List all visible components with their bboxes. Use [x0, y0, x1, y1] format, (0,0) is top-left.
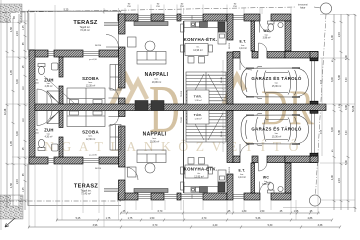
wall: nappali west wall (unit B) — [119, 111, 126, 117]
svg-text:2,15: 2,15 — [338, 32, 341, 37]
reference circle top right — [320, 3, 331, 14]
svg-text:kar.: kar. — [265, 33, 269, 36]
fridge tall unit (unit B) — [218, 170, 226, 192]
sofa (unit B nappali) — [137, 150, 166, 163]
entrance door arc to terrace (unit A) — [106, 35, 119, 48]
svg-text:75/210: 75/210 — [181, 91, 183, 97]
top window dim marks — [64, 4, 238, 12]
szoba door arc (unit B) — [109, 117, 119, 127]
svg-text:19,06 m²: 19,06 m² — [152, 81, 162, 84]
media blocks at party wall (unit A/B) — [135, 101, 164, 111]
svg-text:4,30 m²: 4,30 m² — [45, 85, 53, 88]
svg-text:5,36: 5,36 — [256, 217, 261, 220]
wall: bottom exterior (unit B) hatched segments — [118, 193, 138, 200]
wall: zuh/szoba divider (unit B) — [59, 111, 63, 128]
svg-text:3,00: 3,00 — [331, 127, 334, 132]
wall: garage south wall (unit B) — [233, 156, 240, 163]
svg-text:1,05: 1,05 — [23, 187, 25, 192]
toilet (unit B wc) — [268, 183, 275, 193]
wardrobe (unit A szoba) — [110, 65, 121, 91]
wall: west wing north wall (unit A) — [29, 50, 48, 57]
wall: west exterior wall — [29, 50, 35, 164]
svg-text:hatar: hatar — [300, 7, 306, 10]
window symbols in top wall (unit A) — [104, 16, 244, 26]
kitchen counter (unit B) — [181, 182, 219, 193]
svg-text:72,43 m²: 72,43 m² — [80, 29, 90, 32]
svg-text:kar.: kar. — [241, 44, 245, 47]
svg-text:5,25: 5,25 — [76, 217, 81, 220]
svg-text:1,50: 1,50 — [260, 210, 265, 213]
arrow bottom-left — [5, 218, 15, 227]
wall: garage north wall (unit A) — [233, 52, 240, 59]
wall: garage west wall (unit A) — [227, 14, 233, 40]
shower tray (unit A zuh) — [47, 91, 60, 104]
svg-text:1,56: 1,56 — [10, 183, 13, 188]
dining table with chairs (unit A) — [181, 44, 213, 64]
washbasin (unit B zuh) — [52, 144, 59, 151]
coffee table round (unit B nappali) — [145, 163, 155, 173]
reference circle bottom right — [309, 195, 320, 206]
storage TAR closet (unit B) — [187, 111, 209, 125]
tv sill bar (unit B nappali) — [134, 189, 168, 193]
svg-text:kar.: kar. — [47, 82, 51, 85]
svg-text:3,98 m²: 3,98 m² — [262, 183, 270, 186]
kitchen counter (unit A) — [181, 21, 219, 32]
wall: WC east wall / NE corner (unit A) — [285, 21, 291, 51]
door arc zuh (unit A) — [37, 89, 52, 104]
svg-text:17x18: 17x18 — [221, 76, 223, 83]
wall: kitchen partition line (unit A) — [183, 21, 185, 104]
svg-text:kar.: kar. — [47, 133, 51, 136]
svg-text:1,30: 1,30 — [331, 175, 334, 180]
property dash-dot line top — [2, 7, 296, 12]
svg-text:E.T.: E.T. — [238, 169, 245, 173]
toilet (unit A zuh) — [38, 64, 45, 75]
stair interior dim line (unit A) — [222, 58, 323, 156]
svg-text:75/110: 75/110 — [181, 117, 183, 123]
svg-text:1,55: 1,55 — [294, 210, 299, 213]
armchair (unit A nappali) — [128, 37, 137, 47]
svg-text:6,70: 6,70 — [153, 224, 158, 227]
svg-text:kar.: kar. — [240, 173, 244, 176]
svg-text:4,14 m²: 4,14 m² — [238, 176, 246, 179]
stairs (unit B) — [186, 111, 226, 143]
svg-text:5,36: 5,36 — [338, 130, 341, 135]
terrace bottom edge line — [28, 164, 121, 206]
watermark logo and lettering — [32, 72, 315, 154]
svg-text:NAPPALI: NAPPALI — [145, 72, 169, 78]
svg-text:19,06 m²: 19,06 m² — [150, 140, 160, 143]
interior door dim marks — [95, 43, 231, 173]
svg-text:90/210: 90/210 — [229, 43, 231, 49]
svg-text:15,36 m²: 15,36 m² — [272, 85, 282, 88]
svg-text:SZOBA: SZOBA — [82, 76, 99, 81]
svg-text:KONYHA-ÉTK.: KONYHA-ÉTK. — [184, 167, 218, 172]
garage door east (unit B) — [310, 156, 318, 163]
svg-text:3,96: 3,96 — [93, 224, 98, 227]
bed (unit B szoba) — [67, 111, 105, 127]
svg-text:6,70: 6,70 — [158, 210, 163, 213]
svg-text:ZUH: ZUH — [44, 128, 54, 133]
top dimension line with ticks — [22, 10, 121, 12]
shower tray (unit B zuh) — [47, 111, 60, 124]
svg-text:5,36: 5,36 — [338, 75, 341, 80]
svg-text:1,30: 1,30 — [331, 35, 334, 40]
entrance door arc E.T. (unit B) — [260, 182, 271, 194]
door arc ET to garage (unit A) — [240, 58, 252, 70]
svg-text:5,30: 5,30 — [268, 224, 273, 227]
svg-text:1,50: 1,50 — [150, 217, 155, 220]
svg-text:17x18: 17x18 — [221, 130, 223, 137]
door arc ET to garage (unit B) — [240, 144, 252, 156]
garage door east (unit A) — [310, 52, 318, 59]
svg-text:1,95: 1,95 — [10, 141, 13, 146]
svg-text:1,05: 1,05 — [23, 25, 25, 30]
dining table with chairs (unit B) — [181, 158, 213, 179]
svg-text:4,70: 4,70 — [202, 217, 207, 220]
stipple ground block bottom-left — [0, 195, 23, 219]
svg-text:52,38: 52,38 — [352, 105, 355, 112]
svg-text:72,43 m²: 72,43 m² — [81, 193, 91, 196]
svg-text:12,30 m²: 12,30 m² — [86, 84, 96, 87]
design boundary dash line right — [316, 14, 327, 195]
svg-text:3,00: 3,00 — [331, 77, 334, 82]
svg-text:SZOBA: SZOBA — [82, 130, 99, 135]
svg-text:3,38: 3,38 — [318, 224, 323, 227]
wall: kitchen partition line (unit B) — [183, 110, 185, 193]
storage TAR closet (unit A) — [187, 90, 209, 104]
coffee table round (unit A nappali) — [145, 41, 155, 51]
svg-text:4,30 m²: 4,30 m² — [45, 136, 53, 139]
left dimension numbers rotated — [4, 25, 25, 192]
svg-text:3,00: 3,00 — [16, 131, 19, 136]
right dimension chain lines — [333, 14, 335, 210]
svg-text:3,98 m²: 3,98 m² — [263, 37, 271, 40]
svg-text:GARÁZS ÉS TÁROLÓ: GARÁZS ÉS TÁROLÓ — [251, 76, 301, 81]
wall: nappali west wall (unit A) with door + room openings — [119, 14, 126, 34]
svg-text:TÁR.: TÁR. — [194, 112, 202, 117]
svg-text:TÁR.: TÁR. — [194, 94, 202, 99]
toilet (unit B zuh) — [38, 139, 45, 150]
svg-text:1,80: 1,80 — [242, 210, 247, 213]
property dash-dot line bottom-left — [0, 200, 121, 202]
svg-text:1,38 m²: 1,38 m² — [194, 118, 201, 121]
toilet (unit A wc) — [268, 21, 275, 31]
watermark chevron mark left — [111, 76, 133, 106]
svg-text:kar.: kar. — [264, 180, 268, 183]
svg-text:15,36 m²: 15,36 m² — [272, 136, 282, 139]
svg-text:1,75: 1,75 — [106, 217, 111, 220]
svg-text:p=+0,90: p=+0,90 — [89, 59, 97, 61]
wall: west wing south wall (unit B) — [29, 157, 48, 164]
washbasin (unit A wc) — [278, 22, 283, 27]
svg-text:KONYHA-ÉTK.: KONYHA-ÉTK. — [184, 37, 218, 42]
svg-text:90/210: 90/210 — [229, 167, 231, 173]
wall: ET/WC divider (unit A) — [251, 21, 255, 51]
svg-text:5,30: 5,30 — [345, 55, 348, 60]
svg-text:90/210: 90/210 — [95, 45, 102, 47]
svg-text:1,75: 1,75 — [128, 217, 133, 220]
svg-text:5,30: 5,30 — [345, 160, 348, 165]
svg-text:3,38: 3,38 — [345, 105, 348, 110]
svg-text:WC: WC — [263, 29, 270, 33]
wall: WC east wall / SE corner (unit B) — [285, 163, 291, 193]
watermark chevron mark right — [224, 76, 245, 104]
svg-text:NAPPALI: NAPPALI — [143, 132, 167, 138]
svg-text:12,93 m²: 12,93 m² — [193, 49, 203, 52]
svg-text:12,93 m²: 12,93 m² — [194, 175, 204, 178]
sofa (unit A nappali) — [137, 52, 166, 65]
wall: zuh/szoba divider (unit A) — [59, 57, 63, 77]
wall: ET/WC divider (unit B) — [251, 163, 255, 193]
svg-text:2,86: 2,86 — [308, 217, 313, 220]
svg-text:3,00: 3,00 — [346, 130, 348, 135]
svg-text:2,15: 2,15 — [16, 31, 19, 36]
svg-text:4,14 m²: 4,14 m² — [239, 47, 247, 50]
svg-text:12,30 m²: 12,30 m² — [86, 138, 96, 141]
entrance door arc E.T. (unit A) — [260, 21, 271, 33]
svg-text:GARÁZS ÉS TÁROLÓ: GARÁZS ÉS TÁROLÓ — [251, 127, 301, 132]
tv sill bar (unit A nappali) — [134, 22, 168, 26]
bottom dimension row C — [28, 226, 340, 228]
svg-text:90/210: 90/210 — [95, 168, 102, 170]
left dimension chain lines — [6, 18, 8, 208]
wall: garage west wall (unit B) — [227, 174, 233, 200]
svg-text:3,00: 3,00 — [346, 77, 348, 82]
washbasin (unit A zuh) — [52, 63, 59, 70]
svg-text:3,00: 3,00 — [16, 79, 19, 84]
fridge tall unit (unit A) — [218, 22, 226, 44]
svg-text:12,48: 12,48 — [4, 108, 7, 115]
wall: top exterior (unit A) hatched segments — [118, 14, 138, 21]
svg-text:1,56: 1,56 — [10, 27, 13, 32]
stipple ground block top-left — [0, 4, 22, 23]
svg-text:1,38 m²: 1,38 m² — [194, 99, 201, 102]
car (unit B garage) — [241, 113, 309, 145]
svg-text:INGATLANKÖZVETÍTŐ: INGATLANKÖZVETÍTŐ — [32, 139, 306, 154]
svg-text:5,25: 5,25 — [64, 8, 69, 11]
armchair (unit B nappali) — [128, 167, 137, 177]
attic ladder diagonal (unit A) — [44, 76, 74, 103]
bottom dimension row A — [120, 212, 320, 214]
stairs (unit A) — [186, 72, 226, 104]
svg-text:E.T.: E.T. — [239, 40, 246, 44]
svg-text:2,40: 2,40 — [213, 224, 218, 227]
svg-text:ZUH: ZUH — [44, 78, 54, 83]
wall: central party wall — [35, 104, 326, 111]
wardrobe (unit B szoba) — [110, 125, 121, 151]
entrance door arc to terrace (unit B) — [125, 167, 138, 180]
svg-text:1,95: 1,95 — [10, 70, 13, 75]
svg-text:2,15: 2,15 — [16, 179, 19, 184]
bed (unit A szoba) — [67, 88, 105, 104]
svg-text:2,15: 2,15 — [338, 178, 341, 183]
szoba door arc (unit A) — [109, 88, 119, 98]
car (unit A garage) — [241, 66, 309, 98]
bottom dimension row B — [56, 219, 332, 221]
svg-text:p=+0,90: p=+0,90 — [89, 155, 97, 157]
door arc zuh (unit B) — [37, 111, 52, 126]
washbasin (unit B wc) — [278, 186, 283, 191]
page left edge line — [0, 0, 2, 230]
svg-text:WC: WC — [263, 176, 270, 180]
door arc wc (unit B) — [259, 163, 268, 172]
terrace top edge line — [28, 11, 121, 50]
bottom right helper line — [283, 207, 356, 209]
door arc wc (unit A) — [259, 43, 268, 52]
